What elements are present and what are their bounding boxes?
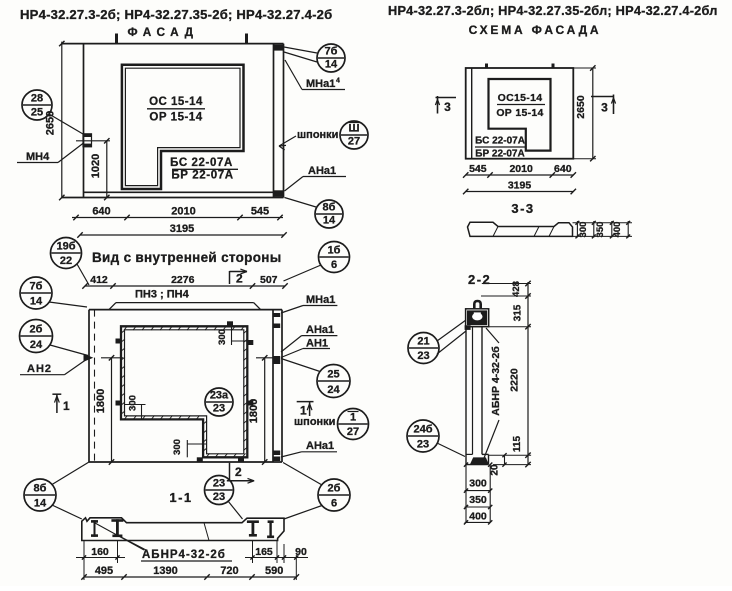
svg-text:300: 300 [128, 395, 139, 411]
svg-text:590: 590 [265, 565, 283, 577]
svg-text:2: 2 [236, 272, 243, 286]
svg-text:412: 412 [90, 274, 108, 286]
svg-text:6: 6 [331, 259, 337, 271]
svg-text:2220: 2220 [509, 368, 521, 392]
svg-text:БР 22-07А: БР 22-07А [475, 149, 524, 160]
svg-text:25: 25 [31, 107, 43, 119]
svg-text:МН4: МН4 [26, 151, 50, 163]
svg-text:3: 3 [601, 101, 608, 115]
svg-text:300: 300 [217, 329, 228, 345]
svg-text:7б: 7б [30, 281, 43, 293]
svg-text:24б: 24б [413, 424, 432, 436]
svg-text:2650: 2650 [575, 95, 587, 119]
svg-text:6: 6 [331, 498, 337, 510]
svg-text:2010: 2010 [171, 206, 195, 218]
svg-text:23: 23 [213, 478, 225, 490]
svg-text:АН1: АН1 [306, 338, 328, 350]
svg-text:БС 22-07А: БС 22-07А [475, 136, 525, 147]
svg-text:1800: 1800 [95, 389, 107, 413]
svg-text:СХЕМА ФАСАДА: СХЕМА ФАСАДА [469, 23, 602, 37]
svg-text:14: 14 [34, 498, 47, 510]
svg-text:640: 640 [92, 206, 110, 218]
svg-text:ФАСАД: ФАСАД [127, 25, 198, 39]
svg-text:23а: 23а [210, 390, 229, 402]
svg-text:28: 28 [31, 93, 43, 105]
svg-text:2010: 2010 [509, 163, 533, 175]
svg-text:14: 14 [323, 215, 336, 227]
svg-text:3: 3 [444, 100, 451, 114]
svg-text:1390: 1390 [153, 565, 177, 577]
svg-text:300: 300 [578, 222, 589, 238]
svg-text:545: 545 [469, 163, 487, 175]
svg-text:ОР 15-14: ОР 15-14 [496, 107, 543, 119]
svg-text:545: 545 [251, 206, 269, 218]
svg-text:1: 1 [63, 399, 70, 413]
svg-text:АНа1: АНа1 [306, 440, 334, 452]
svg-text:300: 300 [172, 439, 183, 455]
svg-text:2276: 2276 [171, 274, 195, 286]
svg-text:НР4-32.27.3-2бл; НР4-32.27.35-: НР4-32.27.3-2бл; НР4-32.27.35-2бл; НР4-3… [388, 3, 718, 18]
svg-text:165: 165 [255, 546, 273, 558]
svg-text:3-3: 3-3 [511, 201, 534, 216]
svg-text:19б: 19б [56, 241, 75, 253]
svg-text:ОС15-14: ОС15-14 [498, 92, 543, 104]
svg-text:24: 24 [327, 384, 340, 396]
svg-text:7б: 7б [325, 46, 338, 58]
svg-text:495: 495 [95, 565, 113, 577]
svg-text:8б: 8б [34, 483, 47, 495]
svg-text:1б: 1б [328, 245, 341, 257]
svg-text:2б: 2б [30, 324, 43, 336]
svg-text:АН2: АН2 [27, 363, 52, 375]
svg-text:НР4-32.27.3-2б; НР4-32.27.35-2: НР4-32.27.3-2б; НР4-32.27.35-2б; НР4-32.… [20, 7, 332, 22]
svg-text:МНа1: МНа1 [306, 294, 335, 306]
svg-text:21: 21 [417, 336, 429, 348]
svg-text:25: 25 [327, 369, 339, 381]
svg-text:23: 23 [417, 439, 429, 451]
svg-text:27: 27 [347, 426, 359, 438]
svg-text:БС 22-07А: БС 22-07А [170, 157, 233, 169]
svg-text:3195: 3195 [508, 180, 532, 192]
svg-text:2-2: 2-2 [468, 272, 491, 287]
svg-text:АНа1: АНа1 [308, 165, 336, 177]
svg-text:шпонки: шпонки [294, 416, 335, 428]
svg-text:8б: 8б [323, 202, 336, 214]
svg-text:Вид с внутренней стороны: Вид с внутренней стороны [92, 250, 282, 265]
svg-text:1: 1 [350, 412, 356, 424]
svg-text:300: 300 [469, 478, 487, 490]
svg-text:23: 23 [417, 350, 429, 362]
svg-text:400: 400 [469, 511, 487, 523]
svg-text:1800: 1800 [248, 399, 260, 423]
svg-text:720: 720 [220, 565, 238, 577]
svg-text:400: 400 [612, 222, 623, 238]
svg-text:Ш: Ш [348, 123, 359, 135]
svg-text:14: 14 [30, 296, 43, 308]
svg-text:ПН3 ; ПН4: ПН3 ; ПН4 [135, 289, 190, 301]
svg-text:115: 115 [512, 435, 523, 452]
svg-text:350: 350 [469, 494, 487, 506]
svg-text:3195: 3195 [170, 223, 194, 235]
svg-text:МНа1: МНа1 [306, 78, 335, 90]
svg-text:23: 23 [213, 491, 225, 503]
svg-text:шпонки: шпонки [297, 129, 338, 141]
svg-text:315: 315 [513, 304, 524, 321]
svg-text:АБНР 4-32-2б: АБНР 4-32-2б [490, 346, 502, 416]
svg-text:АНа1: АНа1 [306, 324, 334, 336]
svg-text:350: 350 [595, 222, 606, 238]
svg-text:507: 507 [260, 274, 278, 286]
svg-text:24: 24 [30, 339, 43, 351]
svg-text:4: 4 [336, 78, 340, 85]
svg-text:ОС 15-14: ОС 15-14 [149, 96, 203, 108]
svg-text:20: 20 [490, 464, 501, 476]
svg-text:23: 23 [213, 403, 225, 415]
svg-text:22: 22 [60, 255, 72, 267]
svg-text:1-1: 1-1 [169, 490, 192, 505]
svg-text:27: 27 [348, 136, 360, 148]
svg-text:640: 640 [554, 163, 572, 175]
svg-text:1020: 1020 [90, 154, 102, 178]
svg-text:БР 22-07А: БР 22-07А [171, 170, 233, 182]
svg-text:ОР 15-14: ОР 15-14 [149, 112, 202, 124]
svg-text:90: 90 [295, 546, 307, 558]
svg-text:АБНР4-32-2б: АБНР4-32-2б [142, 549, 226, 561]
svg-text:160: 160 [91, 546, 109, 558]
svg-text:2б: 2б [328, 483, 341, 495]
svg-text:2: 2 [235, 465, 242, 479]
svg-text:14: 14 [325, 59, 338, 71]
